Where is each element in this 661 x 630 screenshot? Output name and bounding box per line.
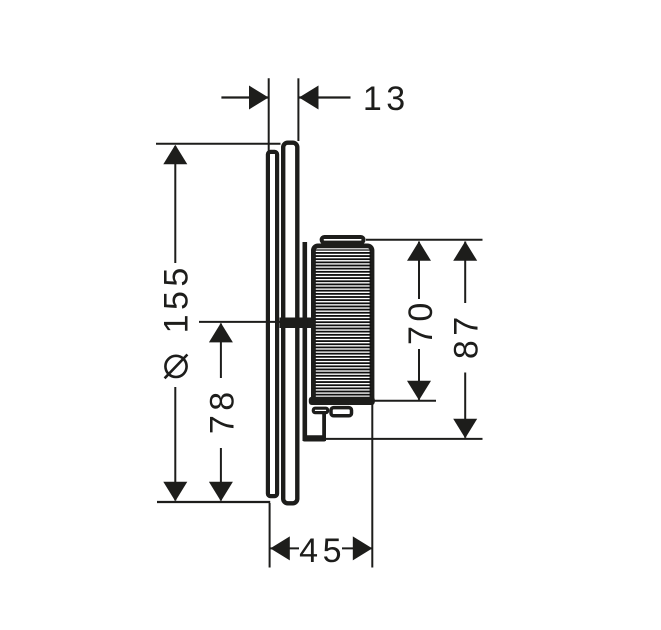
handle knob body [313, 246, 372, 403]
svg-text:13: 13 [363, 80, 410, 118]
handle foot bar [303, 435, 327, 441]
dim 70 line lower segment [418, 349, 420, 400]
dim 78 top extension line [199, 321, 282, 323]
dim 45 right extension line [371, 403, 373, 568]
handle lower tab large [331, 408, 352, 416]
knob top extension line [366, 239, 483, 241]
dim 13 right tail line [299, 96, 351, 98]
dim 70 down arrow [407, 381, 431, 401]
dim 13 right arrow [299, 86, 319, 110]
handle stem [303, 242, 308, 441]
dim 87 bottom extension line [326, 438, 483, 440]
escutcheon front plate [283, 143, 297, 504]
dim 155 diameter symbol circle [165, 356, 186, 377]
dim 155 down arrow [163, 482, 187, 502]
dim 45 left extension line [269, 503, 271, 568]
dim 87 up arrow [453, 241, 477, 260]
dim 78 up arrow [209, 323, 233, 343]
dim 155 up arrow [163, 145, 187, 165]
dim 78 down arrow [209, 482, 233, 502]
dim 78 line upper segment [220, 324, 222, 379]
dim 155 diameter symbol slash [165, 355, 188, 379]
dim 87 down arrow [453, 419, 477, 439]
dim 87 line lower segment [464, 373, 466, 438]
dim 155 line upper segment [174, 146, 176, 263]
handle knurling [315, 249, 370, 397]
dim 70 line upper segment [418, 242, 420, 300]
dim 87 line upper segment [464, 242, 466, 304]
escutcheon wall flange plate [268, 152, 277, 496]
dim 155 line lower segment [174, 387, 176, 501]
dim 13 left arrow [249, 86, 269, 110]
svg-text:155: 155 [158, 263, 196, 333]
dim 155 top extension line [156, 143, 281, 145]
dim 78 line lower segment [220, 448, 222, 501]
dim 70 up arrow [407, 241, 431, 260]
handle foot upright [322, 414, 326, 441]
svg-text:70: 70 [402, 298, 440, 345]
dim 45 right arrow [353, 536, 373, 560]
dim 45 left arrow [270, 536, 290, 560]
handle bottom cap [309, 397, 375, 405]
dim 45 line right segment [342, 547, 372, 549]
svg-text:45: 45 [299, 532, 346, 570]
dim 45 line left segment [270, 547, 299, 549]
handle lower tab small [313, 408, 327, 412]
svg-text:87: 87 [448, 312, 486, 359]
dim 13 right extension line [297, 78, 299, 141]
dim 13 left extension line [268, 78, 270, 151]
bottom baseline extension line [157, 501, 270, 503]
dim 70 bottom extension line [371, 400, 437, 402]
svg-text:78: 78 [203, 387, 241, 434]
dim 13 left tail line [221, 96, 268, 98]
valve spindle [280, 318, 317, 329]
handle top cap [322, 237, 364, 243]
